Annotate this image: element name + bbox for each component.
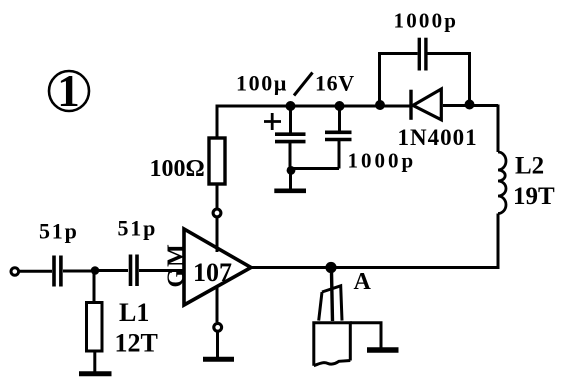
inductor L1 [87,303,103,352]
wire [428,52,472,55]
slash of label [294,73,313,96]
svg-text:16V: 16V [315,71,355,96]
svg-text:51p: 51p [118,216,158,241]
capacitor C3 100u16V [275,134,306,141]
wire [216,106,219,138]
wire [139,269,184,272]
wire [497,105,500,153]
svg-text:100µ: 100µ [236,71,288,96]
off-page connector flag [319,286,342,321]
svg-text:100Ω: 100Ω [150,156,205,182]
node [375,100,385,110]
capacitor C4 1000p [325,132,352,139]
svg-text:51p: 51p [39,219,79,244]
wire [289,143,292,169]
resistor R1 [209,138,225,184]
wire [289,171,292,189]
wire [338,141,341,169]
capacitor C2 51p [131,255,138,287]
wire [216,332,219,358]
wire [290,167,339,170]
wire [332,272,333,321]
op-amp U1 [184,229,251,305]
figure number 1 [49,66,89,116]
ground [79,371,112,376]
svg-text:107: 107 [193,258,232,287]
svg-text:A: A [354,269,372,295]
node junction [287,166,296,175]
inductor L2 [498,152,506,214]
node junction [91,266,100,275]
capacitor C5 1000p [419,38,426,71]
polarity plus of C3 [264,113,281,130]
pin terminal [214,323,222,331]
wire [468,54,471,105]
wire supply rail [216,105,413,108]
wire [98,269,128,272]
ground [367,347,399,352]
wire [338,106,341,131]
svg-text:19T: 19T [513,183,555,210]
wire [93,351,96,372]
wire [378,54,381,105]
svg-text:12T: 12T [115,329,158,358]
wire [289,106,292,133]
off-page connector sheet [314,323,351,366]
ground [274,189,306,194]
wire [216,184,219,208]
capacitor C1 51p [54,256,61,287]
wire [350,323,381,348]
wire [93,274,96,302]
svg-text:1000p: 1000p [348,149,417,173]
svg-text:1: 1 [57,66,80,116]
diode D1 cathode bar [409,90,412,120]
wire supply rail right [443,104,498,107]
svg-text:L2: L2 [515,153,544,180]
svg-text:1000p: 1000p [394,9,459,33]
node [286,101,296,111]
wire [216,218,219,252]
diode D1 1N4001 [413,89,441,120]
node [465,100,475,110]
wire [378,52,418,55]
svg-text:L1: L1 [119,298,149,327]
label C3 100u/16V [236,71,355,96]
ground [203,357,234,362]
pin terminal [213,209,221,217]
wire output [251,266,500,269]
input terminal [11,268,19,276]
svg-text:1N4001: 1N4001 [398,125,478,150]
wire [216,286,219,322]
svg-text:GM: GM [164,242,190,287]
node A [325,262,336,273]
wire [497,214,500,268]
node [335,101,345,111]
wire [19,270,52,273]
wire [63,270,91,273]
